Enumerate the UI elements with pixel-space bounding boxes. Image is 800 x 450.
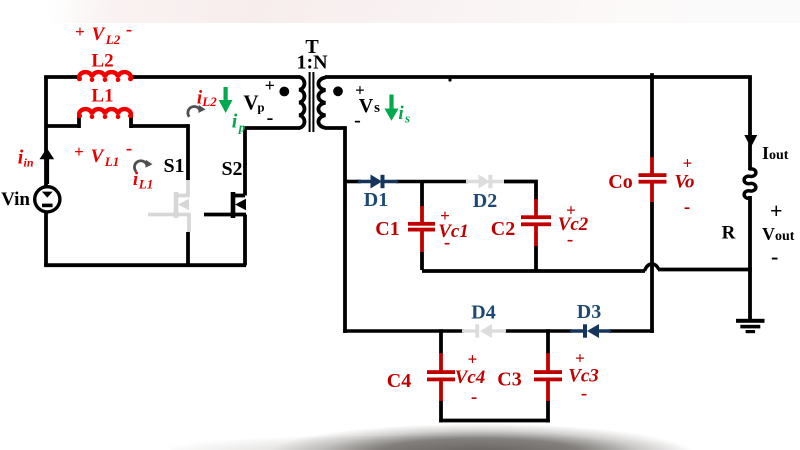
wire: Co branch lower rail to D3 row [650, 270, 654, 333]
polarity dot primary [279, 87, 289, 97]
wire: output bottom rail (with hop at Co junction) [422, 264, 752, 271]
current arrow i_s [384, 95, 398, 121]
svg-text:V: V [762, 224, 775, 244]
wire: D1 row black segments [345, 180, 468, 184]
svg-text:-: - [267, 107, 274, 129]
svg-text:Vo: Vo [674, 172, 694, 193]
svg-text:-: - [684, 197, 690, 218]
label +VL2- [75, 19, 132, 47]
wire: load branch upper [748, 77, 752, 170]
label Vc2 [558, 201, 589, 251]
label +VL1- [74, 138, 132, 169]
svg-text:+: + [770, 198, 783, 223]
svg-text:i: i [398, 103, 404, 124]
label i_L1 [133, 169, 153, 192]
svg-text:in: in [23, 156, 33, 170]
svg-text:L1: L1 [138, 177, 153, 192]
svg-text:L2: L2 [91, 51, 113, 72]
svg-text:L1: L1 [104, 154, 119, 169]
label +Vout- [762, 198, 795, 269]
label i_L2 [197, 88, 217, 110]
current arrow Iout [744, 135, 757, 148]
wire: ground stem [748, 270, 752, 320]
capacitor C2 [521, 199, 551, 270]
svg-text:1:N: 1:N [296, 52, 328, 74]
current arrow i_in [40, 148, 55, 184]
svg-text:-: - [126, 138, 132, 159]
inductor L2 [77, 72, 133, 82]
wire: L1 branch [46, 115, 188, 129]
wire: S2 source [243, 215, 247, 266]
svg-text:S2: S2 [221, 158, 242, 180]
svg-text:C3: C3 [497, 369, 521, 391]
svg-text:+: + [75, 22, 85, 41]
label Vc3 [568, 349, 599, 405]
polarity dot secondary [333, 86, 343, 96]
svg-text:Vin: Vin [1, 189, 30, 210]
svg-text:R: R [722, 223, 736, 244]
current arrow i_p [219, 87, 233, 113]
diode D2 (gray) [466, 175, 505, 189]
svg-text:out: out [769, 148, 789, 163]
svg-text:C2: C2 [491, 218, 515, 240]
label Vs [354, 81, 380, 132]
wire: S1 drain [186, 124, 190, 180]
source Vin [35, 187, 60, 212]
svg-text:Vc1: Vc1 [438, 221, 469, 242]
label Vc1 [438, 206, 469, 253]
svg-text:D2: D2 [473, 190, 497, 212]
diode D3 [570, 324, 611, 338]
transformer secondary winding [318, 78, 325, 128]
svg-text:-: - [581, 383, 587, 404]
svg-text:-: - [471, 387, 477, 408]
diode D1 [358, 175, 398, 189]
switch S1 (gray mosfet) [148, 180, 189, 232]
junction nub on top rail [448, 78, 451, 81]
svg-text:+: + [683, 154, 693, 173]
wire: C4 C3 bottom loop [439, 419, 550, 423]
svg-text:V: V [243, 91, 258, 115]
svg-text:V: V [92, 24, 106, 45]
junction nub at Co top [650, 73, 654, 80]
ground [736, 319, 765, 333]
svg-text:p: p [257, 100, 264, 115]
label Vo [674, 154, 694, 218]
wire: load branch lower [748, 196, 752, 270]
inductor L1 [77, 109, 133, 119]
svg-text:L2: L2 [105, 32, 121, 47]
svg-text:V: V [91, 146, 105, 167]
transformer core [310, 72, 314, 132]
svg-text:Vc2: Vc2 [558, 214, 589, 235]
capacitor Co [639, 77, 667, 270]
svg-text:Co: Co [608, 171, 632, 193]
wire: top rail Vin to transformer primary [44, 75, 300, 79]
label Vp [243, 76, 274, 130]
curved arrow i_L1 [134, 160, 152, 172]
svg-text:I: I [762, 143, 769, 163]
svg-text:s: s [404, 111, 410, 126]
wire: S1 source [186, 232, 190, 266]
wire: bottom left rail [44, 263, 246, 267]
resistor R [744, 169, 756, 198]
svg-text:Vc4: Vc4 [455, 367, 486, 388]
label i_in [18, 147, 34, 170]
wire: top rail transformer to load [325, 75, 752, 79]
switch S2 (mosfet) [204, 192, 246, 218]
curved arrow i_L2 [188, 105, 206, 117]
wire: S2 drain + primary bottom [245, 128, 300, 196]
capacitor C4 [427, 329, 455, 422]
svg-text:C1: C1 [375, 218, 399, 240]
svg-text:i: i [232, 111, 238, 133]
svg-text:C4: C4 [387, 370, 411, 392]
svg-text:+: + [468, 350, 478, 369]
svg-text:p: p [238, 120, 246, 135]
svg-text:out: out [775, 229, 795, 244]
svg-text:D4: D4 [471, 302, 495, 324]
svg-text:S1: S1 [163, 155, 184, 177]
capacitor C1 [408, 180, 435, 270]
svg-text:s: s [374, 100, 380, 116]
label Iout [762, 143, 789, 163]
svg-text:-: - [567, 229, 573, 250]
wire: D2 to C2 corner [504, 182, 536, 201]
wire: left rail [44, 77, 48, 266]
svg-text:V: V [359, 95, 374, 117]
label i_s [398, 103, 410, 126]
svg-text:-: - [771, 244, 778, 269]
svg-text:+: + [74, 142, 84, 161]
svg-text:L1: L1 [91, 86, 113, 107]
diode D4 (gray) [462, 324, 506, 338]
transformer primary winding [299, 77, 304, 128]
wire: secondary return center vertical [325, 126, 345, 333]
capacitor C3 [534, 329, 562, 422]
wire: D3 D4 row black segments [343, 329, 654, 333]
svg-text:D1: D1 [364, 189, 388, 211]
label i_p [232, 111, 246, 135]
svg-text:+: + [265, 76, 275, 96]
svg-text:-: - [444, 232, 450, 253]
label Vc4 [455, 350, 486, 408]
svg-text:D3: D3 [577, 301, 601, 323]
svg-text:-: - [354, 110, 361, 132]
svg-text:L2: L2 [201, 94, 217, 109]
